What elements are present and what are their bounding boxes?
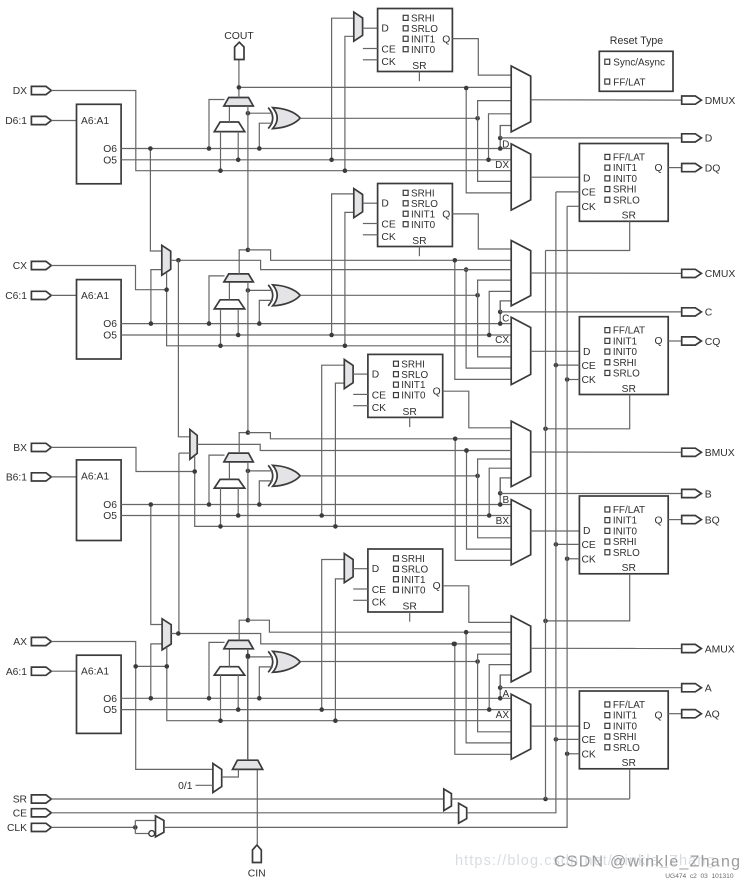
svg-text:SRHI: SRHI xyxy=(411,13,435,24)
svg-text:SRHI: SRHI xyxy=(613,358,637,369)
input pin B6:1 xyxy=(31,473,51,481)
svg-text:SRLO: SRLO xyxy=(411,199,438,210)
svg-text:BQ: BQ xyxy=(705,515,720,526)
output pin AQ xyxy=(682,710,702,718)
svg-text:D: D xyxy=(583,174,590,185)
svg-text:CE: CE xyxy=(582,540,596,551)
wire O6 to MUXCY select (B) xyxy=(209,455,225,504)
svg-text:INIT1: INIT1 xyxy=(411,34,436,45)
svg-text:Q: Q xyxy=(433,581,441,592)
wire 5FF Q to DOUTMUX (C) xyxy=(452,214,511,249)
wire CIN vertical into MUXCY-A xyxy=(247,649,249,760)
svg-text:CQ: CQ xyxy=(705,337,721,348)
svg-text:D: D xyxy=(583,721,590,732)
svg-text:D: D xyxy=(583,347,590,358)
svg-text:D: D xyxy=(381,199,388,210)
wire SR line xyxy=(51,798,444,800)
svg-text:CIN: CIN xyxy=(248,868,266,879)
mux DFFMUX (A) xyxy=(511,694,531,759)
wire O5 branch to DOUTMUX (C) xyxy=(489,291,511,335)
wire CIN vertical into MUXCY-B xyxy=(247,462,249,620)
svg-text:AX: AX xyxy=(13,637,27,648)
wire DI mux left leg to DX xyxy=(220,132,222,171)
svg-text:O5: O5 xyxy=(103,331,117,342)
wire DI mux output (D) xyxy=(228,106,230,122)
wire 5FF mux output to D (D) xyxy=(363,27,378,29)
wire DI mux right leg to O5 (C) xyxy=(237,309,239,335)
wire carry tap A xyxy=(248,620,511,632)
wire O5 (B) xyxy=(121,515,511,517)
wire XOR branch to DOUTMUX (A) xyxy=(478,654,512,661)
svg-text:D: D xyxy=(583,526,590,537)
svg-text:SRLO: SRLO xyxy=(613,548,640,559)
carry mux MUXCY (A) xyxy=(224,640,253,648)
wire C O6 to F7BMUX xyxy=(151,270,162,324)
mux DI select (B) xyxy=(214,479,244,488)
wire XOR branch to DOUTMUX (B) xyxy=(478,459,512,476)
svg-text:DQ: DQ xyxy=(705,163,721,174)
input pin CE xyxy=(31,809,51,817)
LUT B (A6:A1) xyxy=(77,460,122,541)
svg-text:CX: CX xyxy=(13,261,27,272)
flip-flop A5FF xyxy=(368,549,443,612)
wire carry branch to DFFMUX (B) xyxy=(455,439,511,561)
svg-text:FF/LAT: FF/LAT xyxy=(613,153,645,164)
wire XOR output (C) xyxy=(300,294,477,296)
LUT A (A6:A1) xyxy=(77,655,122,733)
svg-text:BX: BX xyxy=(496,516,510,527)
mux DFFMUX (B) xyxy=(511,500,531,565)
wire B O6 to F7AMUX xyxy=(151,505,162,625)
wire O6 to MUXCY select (D) xyxy=(209,100,225,149)
wire XOR output (B) xyxy=(300,475,477,477)
svg-text:Sync/Async: Sync/Async xyxy=(613,58,665,69)
svg-text:CMUX: CMUX xyxy=(705,269,736,280)
svg-text:Q: Q xyxy=(433,386,441,397)
svg-text:CK: CK xyxy=(381,57,395,68)
svg-text:SR: SR xyxy=(412,236,426,247)
svg-text:SR: SR xyxy=(13,795,27,806)
svg-text:Q: Q xyxy=(654,336,662,347)
wire DI mux output (A) xyxy=(228,649,230,667)
wire XOR branch to DFFMUX (C) xyxy=(478,295,512,357)
wire AX to F7AMUX select xyxy=(166,647,168,666)
mux DFFMUX (D) xyxy=(511,144,531,210)
svg-text:B: B xyxy=(705,489,712,500)
svg-text:FF/LAT: FF/LAT xyxy=(613,700,645,711)
wire D O6 to F7BMUX xyxy=(150,149,161,252)
wire carry tap C xyxy=(248,250,511,260)
wire F7/F8 branch to DFFMUX (B) xyxy=(467,451,512,550)
svg-text:AX: AX xyxy=(496,710,510,721)
wire 5FF mux output to D (C) xyxy=(363,202,378,204)
wire DFFMUX output to FF D (A) xyxy=(531,725,580,727)
wire CIN vertical into MUXCY-C xyxy=(247,282,249,433)
wire F7/F8 branch to DFFMUX (A) xyxy=(455,644,511,754)
svg-text:SR: SR xyxy=(622,758,636,769)
svg-text:INIT1: INIT1 xyxy=(613,711,638,722)
svg-text:A: A xyxy=(705,684,712,695)
wire DX bypass xyxy=(51,91,511,171)
svg-text:AQ: AQ xyxy=(705,710,720,721)
wire CFF SR xyxy=(546,395,630,429)
port CIN xyxy=(253,845,262,863)
wire CYINIT output to carry chain xyxy=(247,649,249,760)
LUT C (A6:A1) xyxy=(77,280,122,359)
svg-text:Q: Q xyxy=(654,515,662,526)
wire O5 branch to DOUTMUX (B) xyxy=(489,468,511,515)
svg-text:SRLO: SRLO xyxy=(613,195,640,206)
wire carry branch to DFFMUX (A) xyxy=(466,632,511,743)
wire 5FF CK stub (B) xyxy=(353,405,368,407)
wire CIN to carry init mux xyxy=(256,769,258,845)
svg-text:SRHI: SRHI xyxy=(401,554,425,565)
wire A6:1 to LUT xyxy=(51,670,76,672)
wire BMUX output to pin xyxy=(531,451,682,453)
svg-text:O6: O6 xyxy=(103,694,117,705)
wire O6 to MUXCY select (C) xyxy=(209,276,225,324)
svg-text:D: D xyxy=(372,564,379,575)
svg-text:Q: Q xyxy=(442,34,450,45)
input pin AX xyxy=(31,637,51,645)
wire BX to F8MUX select xyxy=(194,456,196,471)
svg-text:CK: CK xyxy=(582,375,596,386)
output pin C xyxy=(682,308,702,316)
svg-text:SRLO: SRLO xyxy=(401,370,428,381)
svg-text:SR: SR xyxy=(622,211,636,222)
svg-text:UG474_c2_03_101310: UG474_c2_03_101310 xyxy=(665,873,734,879)
input pin CX xyxy=(31,261,51,269)
svg-text:D: D xyxy=(705,134,713,145)
port COUT xyxy=(235,42,244,59)
wire B6:1 to LUT xyxy=(51,476,76,478)
wire CIN vertical into MUXCY-D xyxy=(247,106,249,250)
svg-text:SR: SR xyxy=(403,407,417,418)
carry init mux CYINIT xyxy=(233,760,263,769)
wire XOR output (D) xyxy=(300,117,477,119)
svg-text:D6:1: D6:1 xyxy=(5,116,27,127)
wire CX to F7BMUX select xyxy=(166,273,168,290)
svg-text:A6:A1: A6:A1 xyxy=(81,116,109,127)
svg-text:INIT1: INIT1 xyxy=(613,163,638,174)
svg-text:INIT0: INIT0 xyxy=(411,45,436,56)
output pin DQ xyxy=(682,164,702,172)
svg-text:Q: Q xyxy=(442,209,450,220)
wire B output net to pin xyxy=(500,493,682,495)
wire 5FF CE stub (C) xyxy=(363,223,378,225)
LUT D (A6:A1) xyxy=(77,104,122,184)
wire D output net to pin xyxy=(500,137,682,139)
wire O5 to 5FF mux (C) xyxy=(332,194,354,335)
svg-text:B: B xyxy=(502,495,509,506)
svg-text:A6:A1: A6:A1 xyxy=(81,291,109,302)
flip-flop CFF xyxy=(579,317,668,395)
svg-text:INIT1: INIT1 xyxy=(613,516,638,527)
output pin A xyxy=(682,684,702,692)
CE bus vertical xyxy=(555,192,557,740)
svg-text:SRLO: SRLO xyxy=(613,369,640,380)
flip-flop AFF xyxy=(579,691,668,769)
wire O6 to C output net xyxy=(500,301,511,324)
wire D6:1 to LUT xyxy=(51,120,76,122)
flip-flop BFF xyxy=(579,496,668,574)
wire A output net to pin xyxy=(500,687,682,689)
wire 5FF CK stub (D) xyxy=(363,59,378,61)
wire F8MUX output xyxy=(197,444,511,450)
svg-text:O6: O6 xyxy=(103,319,117,330)
wire XOR branch to DFFMUX (B) xyxy=(478,476,512,538)
wire F7BMUX output to F8MUX xyxy=(178,260,190,437)
wire DFF Q to pin xyxy=(668,167,682,169)
input pin A6:1 xyxy=(31,667,51,675)
svg-text:A6:A1: A6:A1 xyxy=(81,471,109,482)
wire A net up to DOUTMUX xyxy=(499,675,501,688)
wire AFF CE xyxy=(556,738,580,740)
wire O5 to 5FF mux (A) xyxy=(322,560,345,710)
wire C6:1 to LUT xyxy=(51,294,76,296)
wire DFFMUX output to FF D (B) xyxy=(531,530,580,532)
svg-text:COUT: COUT xyxy=(224,31,254,42)
svg-text:C: C xyxy=(705,308,713,319)
svg-text:SRLO: SRLO xyxy=(411,24,438,35)
wire 5FF SR stub (C) xyxy=(418,247,420,257)
svg-text:FF/LAT: FF/LAT xyxy=(613,326,645,337)
output pin CQ xyxy=(682,337,702,345)
svg-text:CK: CK xyxy=(582,749,596,760)
output pin BQ xyxy=(682,516,702,524)
wire F7BMUX output xyxy=(171,260,512,269)
svg-text:Reset Type: Reset Type xyxy=(610,35,664,47)
wire CMUX output to pin xyxy=(531,272,682,274)
svg-text:O5: O5 xyxy=(103,511,117,522)
svg-text:AMUX: AMUX xyxy=(705,644,735,655)
wire BFF Q to pin xyxy=(668,519,682,521)
mux DOUTMUX (C) xyxy=(511,241,531,306)
mux DOUTMUX (D) xyxy=(511,66,531,132)
wire BX bypass xyxy=(51,447,194,471)
mux 0/1 select xyxy=(213,764,222,793)
svg-text:INIT0: INIT0 xyxy=(613,526,638,537)
svg-text:SR: SR xyxy=(412,61,426,72)
wire DI mux output (B) xyxy=(228,462,230,480)
wire DI mux left leg to CX xyxy=(220,309,222,346)
wire O6 to MUXCY select (A) xyxy=(209,642,225,698)
wire AFF CK xyxy=(567,753,579,755)
wire DFFMUX output to FF D (D) xyxy=(531,176,580,178)
svg-text:INIT0: INIT0 xyxy=(613,721,638,732)
wire CE line xyxy=(51,812,458,814)
wire DFF CE xyxy=(556,191,580,193)
wire DI mux left leg to AX xyxy=(220,675,222,721)
svg-text:C: C xyxy=(502,314,509,325)
output pin D xyxy=(682,134,702,142)
svg-text:D: D xyxy=(502,140,509,151)
wire XOR output (A) xyxy=(300,661,477,663)
svg-text:DX: DX xyxy=(13,86,27,97)
CLK bus vertical xyxy=(566,206,568,754)
wire F7/F8 branch to DFFMUX (C) xyxy=(466,270,511,369)
wire 5FF CK stub (C) xyxy=(363,234,378,236)
wire CE line right xyxy=(467,739,556,812)
wire carry to XOR top input (C) xyxy=(248,289,273,291)
output pin DMUX xyxy=(682,96,702,104)
svg-text:SRLO: SRLO xyxy=(401,564,428,575)
wire XOR branch to DFFMUX (A) xyxy=(478,662,512,732)
wire AX to 0/1 mux xyxy=(136,666,213,769)
svg-text:0/1: 0/1 xyxy=(178,781,193,792)
wire CLK to polarity mux xyxy=(51,826,135,828)
carry mux MUXCY (C) xyxy=(224,274,253,282)
wire O5 (C) xyxy=(121,334,511,336)
mux SR gate xyxy=(444,789,452,811)
wire O6 to XOR bottom input (A) xyxy=(259,667,273,698)
inverter bubble xyxy=(149,831,155,837)
wire CLK line right xyxy=(164,754,567,828)
input pin C6:1 xyxy=(31,291,51,299)
svg-text:SRHI: SRHI xyxy=(401,359,425,370)
wire BFF SR xyxy=(546,574,630,621)
svg-text:INIT0: INIT0 xyxy=(613,347,638,358)
wire DX to 5FF mux xyxy=(345,36,354,170)
wire F7AMUX output to F8MUX xyxy=(179,452,190,454)
wire O5 to 5FF mux (B) xyxy=(322,365,345,515)
svg-text:INIT1: INIT1 xyxy=(401,380,426,391)
flip-flop DFF xyxy=(579,144,668,222)
svg-text:CK: CK xyxy=(372,403,386,414)
wire DFFMUX output to FF D (C) xyxy=(531,350,580,352)
wire 5FF CK stub (A) xyxy=(353,599,368,601)
wire D net up to DOUTMUX xyxy=(499,126,501,139)
wire carry to XOR top input (B) xyxy=(248,470,273,472)
svg-text:D: D xyxy=(372,369,379,380)
wire 5FF SR stub (D) xyxy=(418,72,420,82)
wire O6 (B) xyxy=(121,504,511,506)
svg-text:A: A xyxy=(502,689,509,700)
carry mux MUXCY (B) xyxy=(224,453,253,462)
svg-text:CE: CE xyxy=(582,361,596,372)
xor gate XORCY (A) xyxy=(268,651,273,672)
svg-text:CX: CX xyxy=(495,335,509,346)
flip-flop B5FF xyxy=(368,354,443,417)
svg-text:CE: CE xyxy=(582,735,596,746)
wire 5FF Q to DOUTMUX (B) xyxy=(443,391,512,428)
carry mux MUXCY (D) xyxy=(224,98,253,107)
wire BFF CE xyxy=(556,543,580,545)
svg-text:SRHI: SRHI xyxy=(613,732,637,743)
xor gate XORCY (B) xyxy=(268,465,273,486)
wire O5 (A) xyxy=(121,709,511,711)
wire F7AMUX output xyxy=(171,634,511,644)
wire 5FF SR stub (B) xyxy=(409,417,411,427)
svg-text:INIT1: INIT1 xyxy=(411,209,436,220)
wire O6 (D) xyxy=(121,148,511,150)
svg-text:INIT0: INIT0 xyxy=(401,585,426,596)
wire carry tap B xyxy=(248,433,511,439)
wire AX to 5FF mux xyxy=(335,579,344,721)
output pin CMUX xyxy=(682,269,702,277)
wire O5 branch to DOUTMUX (D) xyxy=(489,114,512,160)
SR bus vertical xyxy=(545,251,547,800)
svg-text:DMUX: DMUX xyxy=(705,96,736,107)
svg-text:CK: CK xyxy=(381,232,395,243)
svg-text:FF/LAT: FF/LAT xyxy=(613,505,645,516)
svg-text:A6:1: A6:1 xyxy=(6,667,27,678)
svg-text:Q: Q xyxy=(654,163,662,174)
svg-text:INIT0: INIT0 xyxy=(401,391,426,402)
wire CFF CE xyxy=(556,364,580,366)
wire DI mux right leg to O5 (A) xyxy=(237,675,239,710)
wire 5FF CE stub (A) xyxy=(353,588,368,590)
input pin CLK xyxy=(31,823,51,831)
wire CX to 5FF mux xyxy=(345,212,354,345)
wire 5FF CE stub (B) xyxy=(353,393,368,395)
wire carry to XOR top input (A) xyxy=(248,656,273,658)
svg-text:FF/LAT: FF/LAT xyxy=(613,77,645,88)
input pin BX xyxy=(31,443,51,451)
wire DI mux left leg to BX xyxy=(220,488,222,526)
wire O5 (D) xyxy=(121,159,511,161)
wire BFF CK xyxy=(567,558,579,560)
mux CE gate xyxy=(459,803,467,823)
output pin BMUX xyxy=(682,448,702,456)
wire AX lane xyxy=(136,665,167,667)
input pin DX xyxy=(31,86,51,94)
input pin D6:1 xyxy=(31,116,51,124)
wire carry tap D xyxy=(239,86,511,88)
svg-text:CK: CK xyxy=(372,598,386,609)
mux DOUTMUX (B) xyxy=(511,421,531,487)
wire CFF CK xyxy=(567,379,579,381)
wire carry branch to DFFMUX (C) xyxy=(455,260,511,379)
wire DFF CK xyxy=(567,205,579,207)
wire carry to XOR top input (D) xyxy=(248,112,273,114)
svg-text:A6:A1: A6:A1 xyxy=(81,667,109,678)
svg-text:INIT0: INIT0 xyxy=(411,220,436,231)
svg-text:INIT1: INIT1 xyxy=(401,575,426,586)
mux DI select (D) xyxy=(214,122,244,132)
wire AFF Q to pin xyxy=(668,713,682,715)
wire 5FF CE stub (D) xyxy=(363,48,378,50)
svg-text:CE: CE xyxy=(13,809,27,820)
wire C net up to DOUTMUX xyxy=(499,301,501,312)
svg-text:SR: SR xyxy=(622,384,636,395)
wire BX to 5FF mux xyxy=(335,383,344,526)
wire XOR branch to DOUTMUX (C) xyxy=(478,280,512,295)
wire 0/1 mux output to CYINIT xyxy=(222,769,239,777)
svg-text:B6:1: B6:1 xyxy=(6,473,27,484)
svg-text:Q: Q xyxy=(654,710,662,721)
wire O6 to XOR bottom input (B) xyxy=(259,481,273,505)
flip-flop D5FF xyxy=(378,9,453,72)
mux DI select (A) xyxy=(214,667,244,675)
wire AX bypass xyxy=(51,642,135,667)
input pin SR xyxy=(31,795,51,803)
svg-text:O5: O5 xyxy=(103,155,117,166)
svg-text:D: D xyxy=(381,24,388,35)
mux DOUTMUX (A) xyxy=(511,616,531,682)
svg-text:SRLO: SRLO xyxy=(613,743,640,754)
output pin B xyxy=(682,489,702,497)
wire XOR branch to DFFMUX (D) xyxy=(478,118,512,181)
flip-flop C5FF xyxy=(378,184,453,247)
svg-text:DX: DX xyxy=(495,160,509,171)
mux DFFMUX (C) xyxy=(511,317,531,384)
svg-text:CK: CK xyxy=(582,202,596,213)
wire CX bypass xyxy=(51,266,166,290)
wire DI mux right leg to O5 (D) xyxy=(237,132,239,160)
svg-text:CE: CE xyxy=(372,585,386,596)
svg-text:BMUX: BMUX xyxy=(705,448,735,459)
